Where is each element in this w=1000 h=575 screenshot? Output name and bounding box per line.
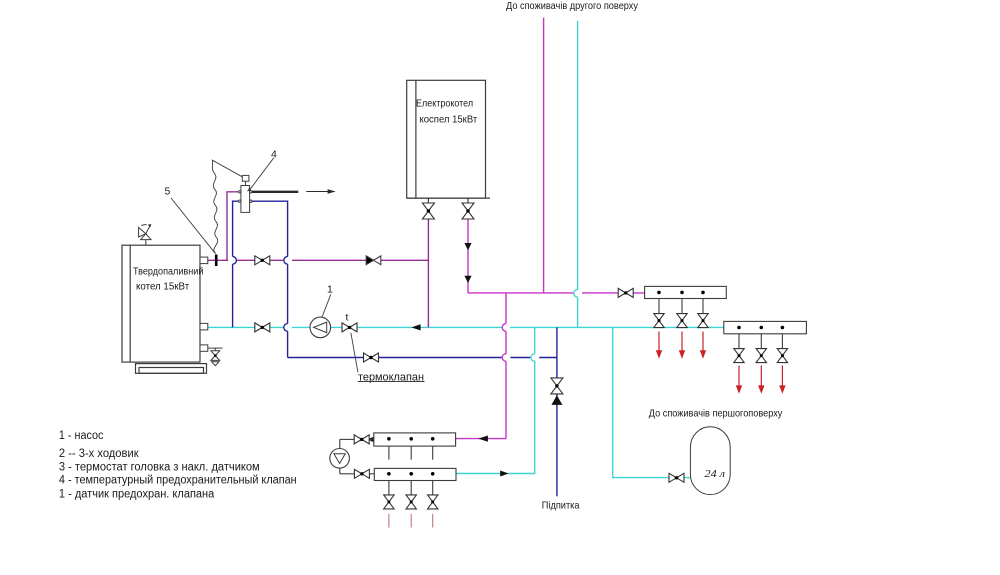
boiler: solid fuel (Tverdopalyvnyi kotel) — [122, 245, 207, 373]
pipe: cyan main return line y=327.4 — [208, 326, 724, 328]
valve: manifold 2 drain a — [734, 349, 744, 363]
valve: make-up line valve — [551, 378, 563, 394]
pipe: bright magenta drop to lower manifold x=506 — [456, 293, 506, 439]
svg-text:Електрокотел: Електрокотел — [416, 99, 473, 110]
valve: manifold 4 drain c — [428, 495, 438, 509]
pipe: navy make-up (Pidpytka) vertical x=556.9 — [556, 327, 558, 496]
svg-text:5: 5 — [165, 186, 171, 198]
valve: manifold 4 drain b — [406, 495, 416, 509]
capillary squiggle to sensor — [212, 160, 242, 253]
pipe: navy loop right vertical x=287.6 — [250, 201, 287, 357]
expansion tank 24 l — [690, 427, 730, 495]
boiler stubs — [200, 257, 208, 351]
valve: manifold 3 left — [354, 435, 369, 444]
red stub lines under manifold 4 valves — [389, 514, 433, 528]
valve: manifold 1 drain a — [654, 314, 664, 328]
device 4: thermal safety relief valve — [239, 175, 252, 212]
valve: navy bypass valve — [364, 353, 379, 362]
pump 1: main circulation pump — [310, 317, 331, 338]
svg-text:коспел 15кВт: коспел 15кВт — [420, 115, 478, 126]
valve: manifold 2 drain b — [756, 349, 766, 363]
svg-text:Твердопаливний: Твердопаливний — [133, 267, 203, 278]
flue outlet thick line — [252, 191, 298, 193]
valve: manifold 1 drain b — [677, 314, 687, 328]
svg-text:2 -- 3-х ходовик: 2 -- 3-х ходовик — [59, 448, 140, 460]
manifold 3 (bottom upper) — [374, 433, 456, 460]
valve: manifold 4 drain a — [384, 495, 394, 509]
svg-text:4: 4 — [271, 148, 277, 160]
pipe: cyan riser from second floor x=577.6 — [574, 21, 578, 327]
valve: electric boiler right — [462, 203, 474, 219]
svg-text:1 - насос: 1 - насос — [59, 430, 104, 442]
pump 2 — [330, 449, 350, 469]
label 4 with pointer — [249, 158, 274, 191]
valve: manifold 1 inlet — [618, 288, 633, 297]
valve: manifold 4 left — [354, 469, 369, 478]
red arrows manifold 2 — [736, 366, 786, 394]
pipe: dark magenta to safety device x=227 — [227, 192, 239, 260]
manifold 1 (upper right) — [645, 286, 727, 313]
red arrows manifold 1 — [656, 332, 706, 359]
svg-text:t: t — [346, 312, 349, 324]
pipe: dark magenta electric boiler left drop x=428.4 — [427, 219, 429, 327]
label: termoklapan with pointer and underline — [351, 333, 358, 373]
svg-text:Підпитка: Підпитка — [542, 499, 580, 511]
pipe: bright magenta electric boiler right drop x=468 — [467, 219, 469, 293]
valve: expansion tank valve — [669, 473, 684, 482]
pipe: cyan from lower manifold up x=534.7 — [456, 327, 535, 473]
label 5 with pointer — [171, 198, 215, 253]
make-up flow arrow up — [551, 395, 562, 405]
svg-text:1 - датчик предохран. клапана: 1 - датчик предохран. клапана — [59, 489, 215, 501]
svg-text:До споживачів другого поверху: До споживачів другого поверху — [506, 0, 639, 12]
label 1 with pointer — [322, 294, 331, 317]
boiler: electric (Elektrokotel kospel) — [407, 80, 490, 203]
svg-text:До споживачів першогоповерху: До споживачів першогоповерху — [649, 408, 783, 420]
svg-text:котел 15кВт: котел 15кВт — [136, 281, 190, 292]
svg-text:24 л: 24 л — [705, 469, 726, 480]
pipe: bright magenta supply header y=292.9 — [468, 292, 645, 294]
pipe: bright magenta riser to second floor x=543.6 — [543, 18, 545, 293]
svg-text:4 - температурный предохраните: 4 - температурный предохранительный клап… — [59, 474, 297, 486]
svg-text:1: 1 — [327, 284, 333, 296]
valve: boiler return gate valve — [255, 323, 270, 332]
valve: boiler supply gate valve — [255, 256, 270, 265]
sensor tick (element 5) — [215, 255, 218, 267]
svg-text:3 - термостат головка з накл.: 3 - термостат головка з накл. датчиком — [59, 462, 260, 474]
arrows: black flow arrows on pipes — [411, 324, 420, 330]
valve: manifold 2 drain c — [777, 349, 787, 363]
manifold 4 (bottom lower) — [374, 468, 456, 495]
bottom-left piping to pump 2 — [340, 439, 375, 473]
valve: electric boiler left — [422, 203, 434, 219]
pipe: cyan to expansion tank x=612.7 — [613, 327, 691, 477]
pipe: navy bypass horizontal y=357.5 — [288, 357, 557, 359]
flow direction arrow right — [306, 191, 329, 193]
safety valve on boiler top — [139, 224, 152, 245]
manifold 2 (lower right) — [724, 321, 807, 348]
boiler drain with valve — [208, 348, 223, 366]
valve: manifold 1 drain c — [698, 314, 708, 328]
pipe: dark magenta boiler supply y=260.3 — [208, 259, 428, 261]
pipe: navy loop left vertical x=232.6 — [233, 201, 241, 327]
valve: thermovalve t — [342, 323, 357, 332]
valve: check valve on supply — [366, 256, 381, 265]
